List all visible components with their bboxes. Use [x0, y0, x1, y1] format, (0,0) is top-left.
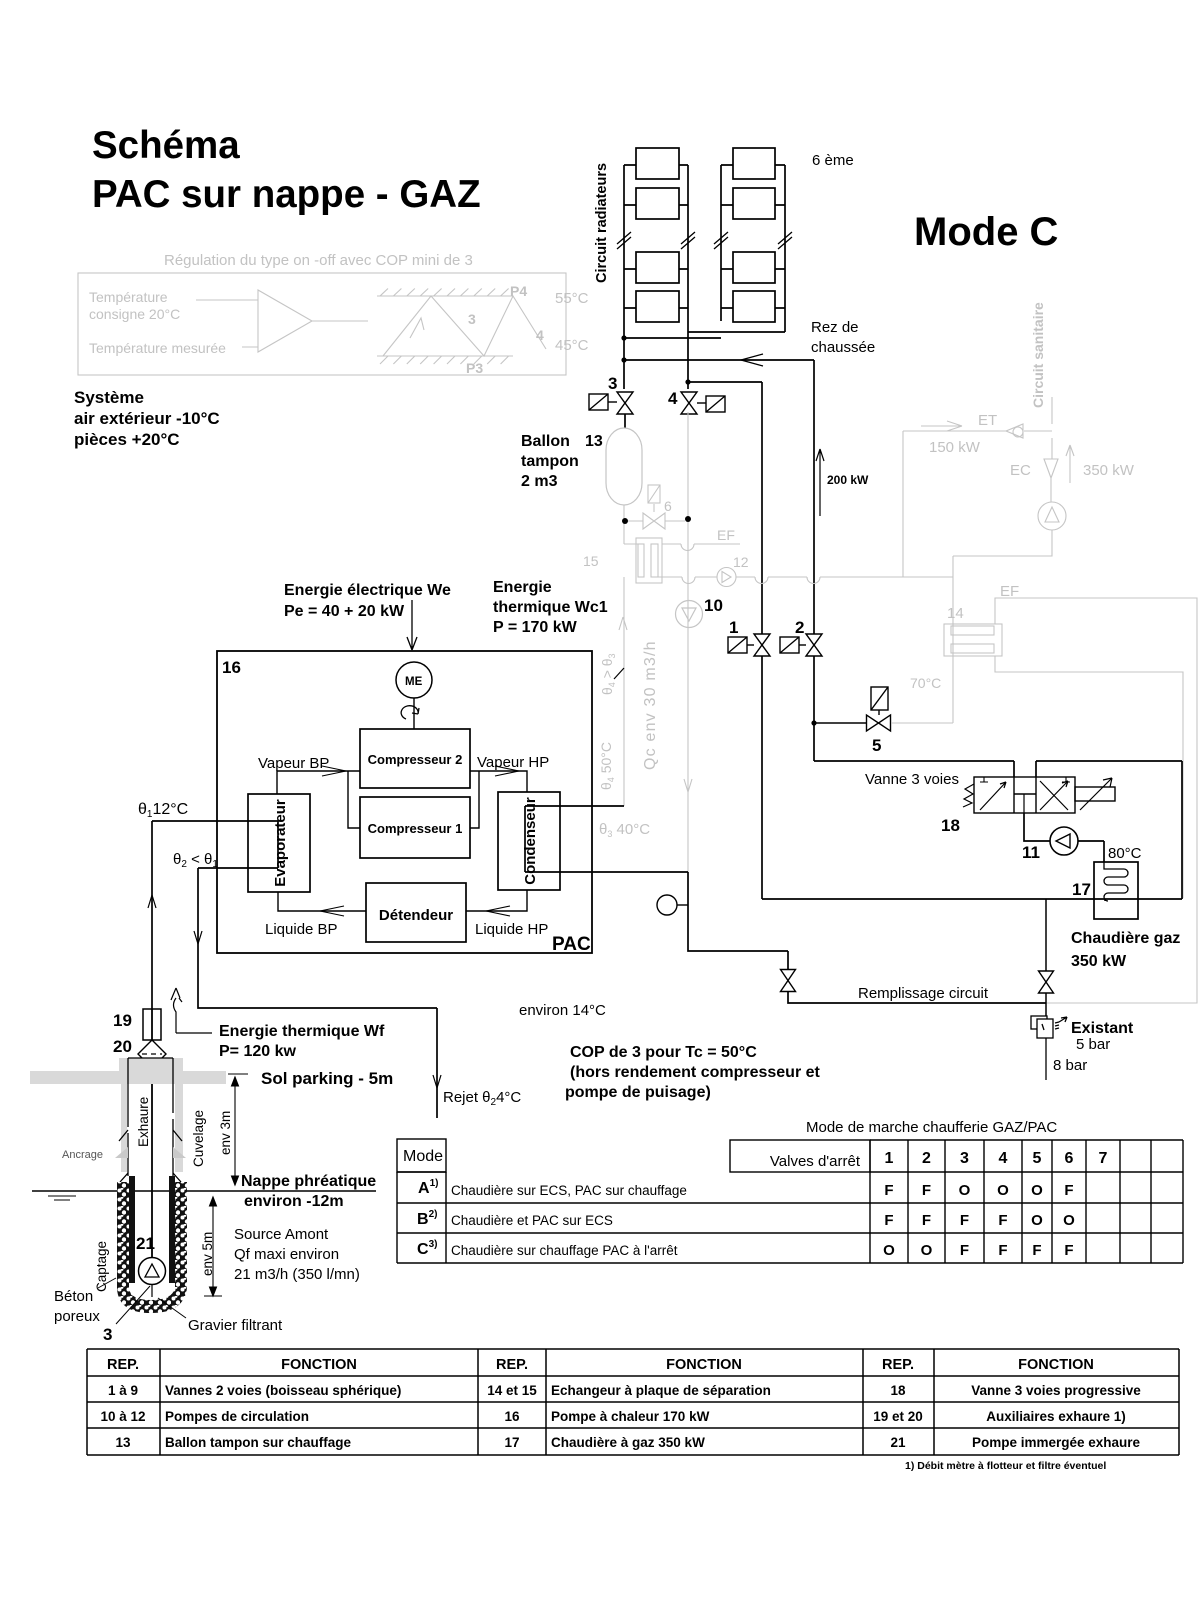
svg-text:O: O [1063, 1212, 1075, 1229]
pump 21 [139, 1258, 166, 1285]
svg-text:10 à 12: 10 à 12 [100, 1409, 145, 1424]
svg-text:4: 4 [536, 327, 544, 343]
svg-text:ET: ET [978, 412, 997, 429]
svg-text:Echangeur à plaque de séparati: Echangeur à plaque de séparation [551, 1383, 771, 1398]
svg-text:3: 3 [960, 1150, 969, 1167]
svg-text:Rez de: Rez de [811, 319, 859, 336]
svg-text:Pompe immergée exhaure: Pompe immergée exhaure [972, 1435, 1141, 1450]
svg-text:F: F [998, 1212, 1007, 1229]
svg-text:6 ème: 6 ème [812, 152, 854, 169]
svg-text:environ 14°C: environ 14°C [519, 1002, 606, 1019]
pipe break marks [617, 232, 792, 366]
svg-text:F: F [884, 1212, 893, 1229]
svg-text:2: 2 [922, 1150, 931, 1167]
svg-text:PAC: PAC [552, 934, 591, 955]
svg-text:1 à 9: 1 à 9 [108, 1383, 138, 1398]
EC cone [1044, 438, 1058, 502]
wire valve6 branch [628, 520, 685, 522]
svg-text:F: F [884, 1182, 893, 1199]
svg-text:55°C: 55°C [555, 290, 589, 307]
svg-text:2 m3: 2 m3 [521, 473, 558, 490]
svg-text:O: O [997, 1182, 1009, 1199]
svg-text:350 kW: 350 kW [1083, 462, 1135, 479]
svg-text:PAC sur nappe - GAZ: PAC sur nappe - GAZ [92, 173, 481, 216]
radiator row col1 [636, 188, 679, 219]
pump 11 [1024, 813, 1104, 862]
svg-text:14: 14 [947, 605, 964, 622]
svg-text:13: 13 [115, 1435, 131, 1450]
svg-text:19 et 20: 19 et 20 [873, 1409, 923, 1424]
svg-text:env 3m: env 3m [218, 1111, 233, 1155]
svg-text:Liquide BP: Liquide BP [265, 921, 338, 938]
svg-text:Gravier filtrant: Gravier filtrant [188, 1317, 283, 1334]
svg-text:COP de 3 pour Tc = 50°C: COP de 3 pour Tc = 50°C [570, 1044, 757, 1061]
svg-text:6: 6 [664, 498, 672, 514]
svg-text:7: 7 [1099, 1150, 1108, 1167]
svg-text:Liquide HP: Liquide HP [475, 921, 548, 938]
radiator row col2 [733, 148, 775, 179]
svg-text:Chaudière sur ECS, PAC sur cha: Chaudière sur ECS, PAC sur chauffage [451, 1183, 687, 1198]
svg-text:70°C: 70°C [910, 675, 941, 691]
svg-text:F: F [1064, 1182, 1073, 1199]
sensor circle [657, 895, 677, 915]
svg-text:O: O [883, 1242, 895, 1259]
svg-text:Circuit radiateurs: Circuit radiateurs [594, 163, 610, 283]
svg-text:Energie électrique We: Energie électrique We [284, 582, 451, 599]
motor ME [396, 662, 432, 698]
svg-text:θ4 > θ3: θ4 > θ3 [599, 653, 617, 695]
flow arrow to radiators [741, 354, 763, 366]
svg-text:Ballon tampon sur chauffage: Ballon tampon sur chauffage [165, 1435, 352, 1450]
svg-text:θ112°C: θ112°C [138, 801, 188, 820]
bottom pipe [762, 898, 1182, 900]
svg-text:FONCTION: FONCTION [1018, 1357, 1094, 1373]
svg-text:18: 18 [890, 1383, 906, 1398]
pump 12 [717, 568, 736, 587]
PAC enclosure 16 [217, 651, 592, 953]
svg-text:θ4 50°C: θ4 50°C [598, 742, 616, 790]
svg-text:environ -12m: environ -12m [244, 1193, 344, 1210]
radiator row col2 [733, 252, 775, 283]
down to exchanger 14 [891, 530, 1052, 723]
EF loop [995, 598, 1197, 1003]
svg-text:P3: P3 [466, 360, 483, 376]
condenser water [525, 806, 1046, 1003]
label energie electrique We [284, 579, 608, 636]
svg-text:Existant: Existant [1071, 1020, 1134, 1037]
gravel pack + captage [129, 1176, 135, 1283]
svg-text:θ3 40°C: θ3 40°C [599, 821, 650, 839]
EF line upper [662, 544, 740, 551]
sawtooth [383, 296, 546, 356]
svg-text:F: F [922, 1212, 931, 1229]
svg-text:17: 17 [504, 1435, 519, 1450]
svg-text:FONCTION: FONCTION [666, 1357, 742, 1373]
svg-text:21: 21 [890, 1435, 906, 1450]
We arrow [407, 600, 417, 650]
svg-text:Température mesurée: Température mesurée [89, 340, 226, 356]
evaporator water [152, 821, 437, 1118]
radiator row col1 [636, 291, 679, 322]
sol parking band [30, 1071, 226, 1084]
svg-text:5: 5 [872, 736, 881, 755]
svg-text:(hors rendement compresseur et: (hors rendement compresseur et [570, 1064, 821, 1081]
svg-text:11: 11 [1022, 843, 1040, 862]
exchanger 15 [636, 538, 662, 583]
exchanger 14 [944, 624, 1002, 656]
EC pump [1038, 502, 1066, 530]
svg-text:Circuit sanitaire: Circuit sanitaire [1030, 302, 1046, 408]
svg-text:16: 16 [504, 1409, 520, 1424]
svg-text:Béton: Béton [54, 1288, 93, 1305]
flow meter 19 [151, 1009, 153, 1041]
svg-text:O: O [959, 1182, 971, 1199]
svg-text:F: F [1064, 1242, 1073, 1259]
svg-text:Vanne 3 voies progressive: Vanne 3 voies progressive [971, 1383, 1141, 1398]
svg-text:1) Débit mètre à flotteur et f: 1) Débit mètre à flotteur et filtre éven… [905, 1460, 1106, 1472]
svg-text:tampon: tampon [521, 453, 579, 470]
svg-text:Exhaure: Exhaure [136, 1097, 151, 1147]
pipe ballon to exchanger 15 [624, 505, 638, 544]
ballon tampon 13 [624, 414, 626, 428]
svg-text:Schéma: Schéma [92, 124, 240, 167]
svg-text:3: 3 [468, 311, 476, 327]
svg-text:F: F [998, 1242, 1007, 1259]
svg-text:REP.: REP. [882, 1357, 914, 1373]
svg-text:Température: Température [89, 289, 168, 305]
env 5m dimension [204, 1197, 222, 1296]
svg-text:Système: Système [74, 388, 144, 407]
svg-text:16: 16 [222, 658, 241, 677]
rotated well labels [94, 1097, 233, 1292]
pump 10 [676, 601, 703, 628]
radiator row col2 [733, 188, 775, 219]
input/output wires [196, 300, 368, 347]
svg-text:Compresseur 2: Compresseur 2 [368, 752, 463, 767]
svg-text:Captage: Captage [94, 1241, 109, 1292]
filter 20 [138, 1040, 166, 1068]
junction dots [621, 335, 626, 340]
label COP note [565, 1044, 821, 1101]
350kW arrow [1066, 445, 1074, 483]
svg-text:consigne 20°C: consigne 20°C [89, 306, 180, 322]
svg-text:15: 15 [583, 553, 599, 569]
condenseur [498, 792, 560, 890]
energie thermique Wf [219, 1023, 385, 1060]
svg-text:Chaudière sur chauffage PAC à: Chaudière sur chauffage PAC à l'arrêt [451, 1243, 678, 1258]
radiator row col1 [636, 148, 679, 179]
svg-text:Auxiliaires exhaure 1): Auxiliaires exhaure 1) [986, 1409, 1126, 1424]
gray up arrow on supply [619, 617, 627, 630]
svg-text:env 5m: env 5m [200, 1232, 215, 1276]
anchors gray [115, 1147, 128, 1158]
svg-text:pièces +20°C: pièces +20°C [74, 430, 180, 449]
svg-text:Chaudière et PAC sur ECS: Chaudière et PAC sur ECS [451, 1213, 613, 1228]
svg-text:Détendeur: Détendeur [379, 907, 453, 924]
svg-text:10: 10 [704, 596, 723, 615]
svg-text:Evaporateur: Evaporateur [272, 799, 289, 887]
svg-text:Mode: Mode [403, 1148, 443, 1165]
svg-text:5 bar: 5 bar [1076, 1036, 1110, 1053]
radiator row col2 [733, 291, 775, 322]
svg-text:Remplissage circuit: Remplissage circuit [858, 985, 989, 1002]
top connections [814, 761, 1182, 899]
svg-text:Régulation du type on -off ave: Régulation du type on -off avec COP mini… [164, 252, 473, 269]
svg-text:poreux: poreux [54, 1308, 100, 1325]
radiator row col1 [636, 252, 679, 283]
supply line down to condenser [623, 577, 625, 806]
hysteresis top line P4 [377, 295, 513, 297]
refrigerant piping [277, 766, 527, 916]
svg-text:O: O [921, 1242, 933, 1259]
leaders [98, 1278, 186, 1324]
svg-text:F: F [1032, 1242, 1041, 1259]
proportional actuator [1075, 787, 1115, 801]
svg-text:350 kW: 350 kW [1071, 953, 1127, 970]
svg-text:P= 120 kw: P= 120 kw [219, 1043, 297, 1060]
svg-text:Rejet θ24°C: Rejet θ24°C [443, 1089, 521, 1108]
svg-text:Energie: Energie [493, 579, 552, 596]
well casing [121, 1072, 183, 1172]
svg-text:Cuvelage: Cuvelage [191, 1110, 206, 1167]
flow arrows [322, 766, 346, 776]
remplissage valves [781, 970, 796, 992]
env 3m dimension [228, 1074, 248, 1185]
svg-text:chaussée: chaussée [811, 339, 875, 356]
svg-text:FONCTION: FONCTION [281, 1357, 357, 1373]
svg-text:Vapeur HP: Vapeur HP [477, 754, 549, 771]
svg-text:Vanne 3 voies: Vanne 3 voies [865, 771, 959, 788]
svg-text:F: F [960, 1242, 969, 1259]
svg-text:REP.: REP. [107, 1357, 139, 1373]
svg-text:ME: ME [405, 676, 423, 688]
svg-text:150 kW: 150 kW [929, 439, 981, 456]
svg-text:3: 3 [103, 1325, 112, 1344]
svg-text:Source Amont: Source Amont [234, 1226, 329, 1243]
svg-text:thermique Wc1: thermique Wc1 [493, 599, 608, 616]
check valve [1006, 424, 1023, 438]
svg-text:F: F [922, 1182, 931, 1199]
svg-text:4: 4 [668, 389, 678, 408]
svg-text:45°C: 45°C [555, 337, 589, 354]
detendeur [366, 883, 466, 942]
svg-text:4: 4 [999, 1150, 1008, 1167]
svg-text:F: F [960, 1212, 969, 1229]
compresseur 2 [360, 729, 470, 788]
regulation block [78, 273, 566, 375]
svg-text:P = 170 kW: P = 170 kW [493, 619, 578, 636]
spring [963, 784, 974, 807]
svg-text:20: 20 [113, 1037, 132, 1056]
bottom headers [624, 332, 814, 382]
water table line [32, 1190, 376, 1192]
ET arrow [921, 421, 962, 431]
svg-text:Mode de marche chaufferie GAZ/: Mode de marche chaufferie GAZ/PAC [806, 1119, 1057, 1136]
rep fonction table [87, 1349, 1179, 1455]
svg-text:21 m3/h (350 l/mn): 21 m3/h (350 l/mn) [234, 1266, 360, 1283]
svg-text:Compresseur 1: Compresseur 1 [368, 821, 463, 836]
svg-text:O: O [1031, 1182, 1043, 1199]
hysteresis bottom line P3 [377, 355, 513, 357]
svg-text:21: 21 [136, 1234, 155, 1253]
evaporateur [248, 794, 310, 892]
svg-text:13: 13 [585, 433, 603, 450]
svg-text:17: 17 [1072, 880, 1091, 899]
valve 6 gray [648, 485, 660, 503]
svg-text:14 et 15: 14 et 15 [487, 1383, 537, 1398]
svg-text:19: 19 [113, 1011, 132, 1030]
systeme text [74, 388, 220, 449]
svg-text:Ancrage: Ancrage [62, 1149, 103, 1161]
svg-text:Chaudière gaz: Chaudière gaz [1071, 930, 1180, 947]
risers to plant [762, 360, 814, 899]
svg-text:Ballon: Ballon [521, 433, 570, 450]
svg-text:200 kW: 200 kW [827, 473, 869, 487]
200 kW arrow [816, 449, 824, 516]
valve 6 stem [653, 504, 655, 512]
junction dots black [622, 518, 628, 524]
circuit line through pump 12 [651, 577, 953, 584]
svg-text:Vannes 2 voies (boisseau sphér: Vannes 2 voies (boisseau sphérique) [165, 1383, 401, 1398]
svg-text:EC: EC [1010, 462, 1031, 479]
svg-text:5: 5 [1033, 1150, 1042, 1167]
svg-text:air extérieur -10°C: air extérieur -10°C [74, 409, 220, 428]
svg-text:6: 6 [1065, 1150, 1074, 1167]
svg-text:80°C: 80°C [1108, 845, 1142, 862]
return line valve4 down [687, 412, 689, 872]
valve 18 [963, 777, 1115, 813]
chaudiere 17 [1094, 862, 1138, 919]
svg-text:EF: EF [1000, 583, 1019, 600]
svg-text:P4: P4 [510, 283, 527, 299]
svg-text:Sol parking - 5m: Sol parking - 5m [261, 1069, 393, 1088]
svg-text:Pe = 40 + 20 kW: Pe = 40 + 20 kW [284, 603, 405, 620]
svg-text:3: 3 [608, 374, 617, 393]
svg-text:Vapeur BP: Vapeur BP [258, 755, 329, 772]
svg-text:8 bar: 8 bar [1053, 1057, 1087, 1074]
svg-text:EF: EF [717, 527, 735, 543]
svg-text:Chaudière à gaz 350 kW: Chaudière à gaz 350 kW [551, 1435, 705, 1450]
svg-text:Valves d'arrêt: Valves d'arrêt [770, 1153, 861, 1170]
svg-text:18: 18 [941, 816, 960, 835]
svg-text:1: 1 [885, 1150, 894, 1167]
svg-text:REP.: REP. [496, 1357, 528, 1373]
svg-text:pompe de puisage): pompe de puisage) [565, 1084, 711, 1101]
gray vertical labels [598, 640, 659, 839]
radiator risers [624, 165, 785, 389]
svg-text:Nappe phréatique: Nappe phréatique [241, 1173, 376, 1190]
pressure reducer existant [1031, 1016, 1067, 1080]
ET line [903, 397, 1052, 577]
svg-text:Energie thermique Wf: Energie thermique Wf [219, 1023, 385, 1040]
comparator triangle [258, 290, 312, 352]
valve 5 [811, 720, 816, 725]
svg-text:Qc env 30 m3/h: Qc env 30 m3/h [642, 640, 659, 770]
svg-text:2: 2 [795, 618, 804, 637]
svg-text:Qf maxi environ: Qf maxi environ [234, 1246, 339, 1263]
svg-text:Pompes de circulation: Pompes de circulation [165, 1409, 309, 1424]
svg-text:12: 12 [733, 554, 749, 570]
svg-text:O: O [1031, 1212, 1043, 1229]
black slash mark [614, 668, 624, 679]
svg-text:1: 1 [729, 618, 738, 637]
compresseur 1 [360, 797, 470, 858]
svg-text:Pompe à chaleur 170 kW: Pompe à chaleur 170 kW [551, 1409, 710, 1424]
svg-text:Mode C: Mode C [914, 210, 1058, 254]
gray down arrow (Qc) [684, 779, 692, 792]
